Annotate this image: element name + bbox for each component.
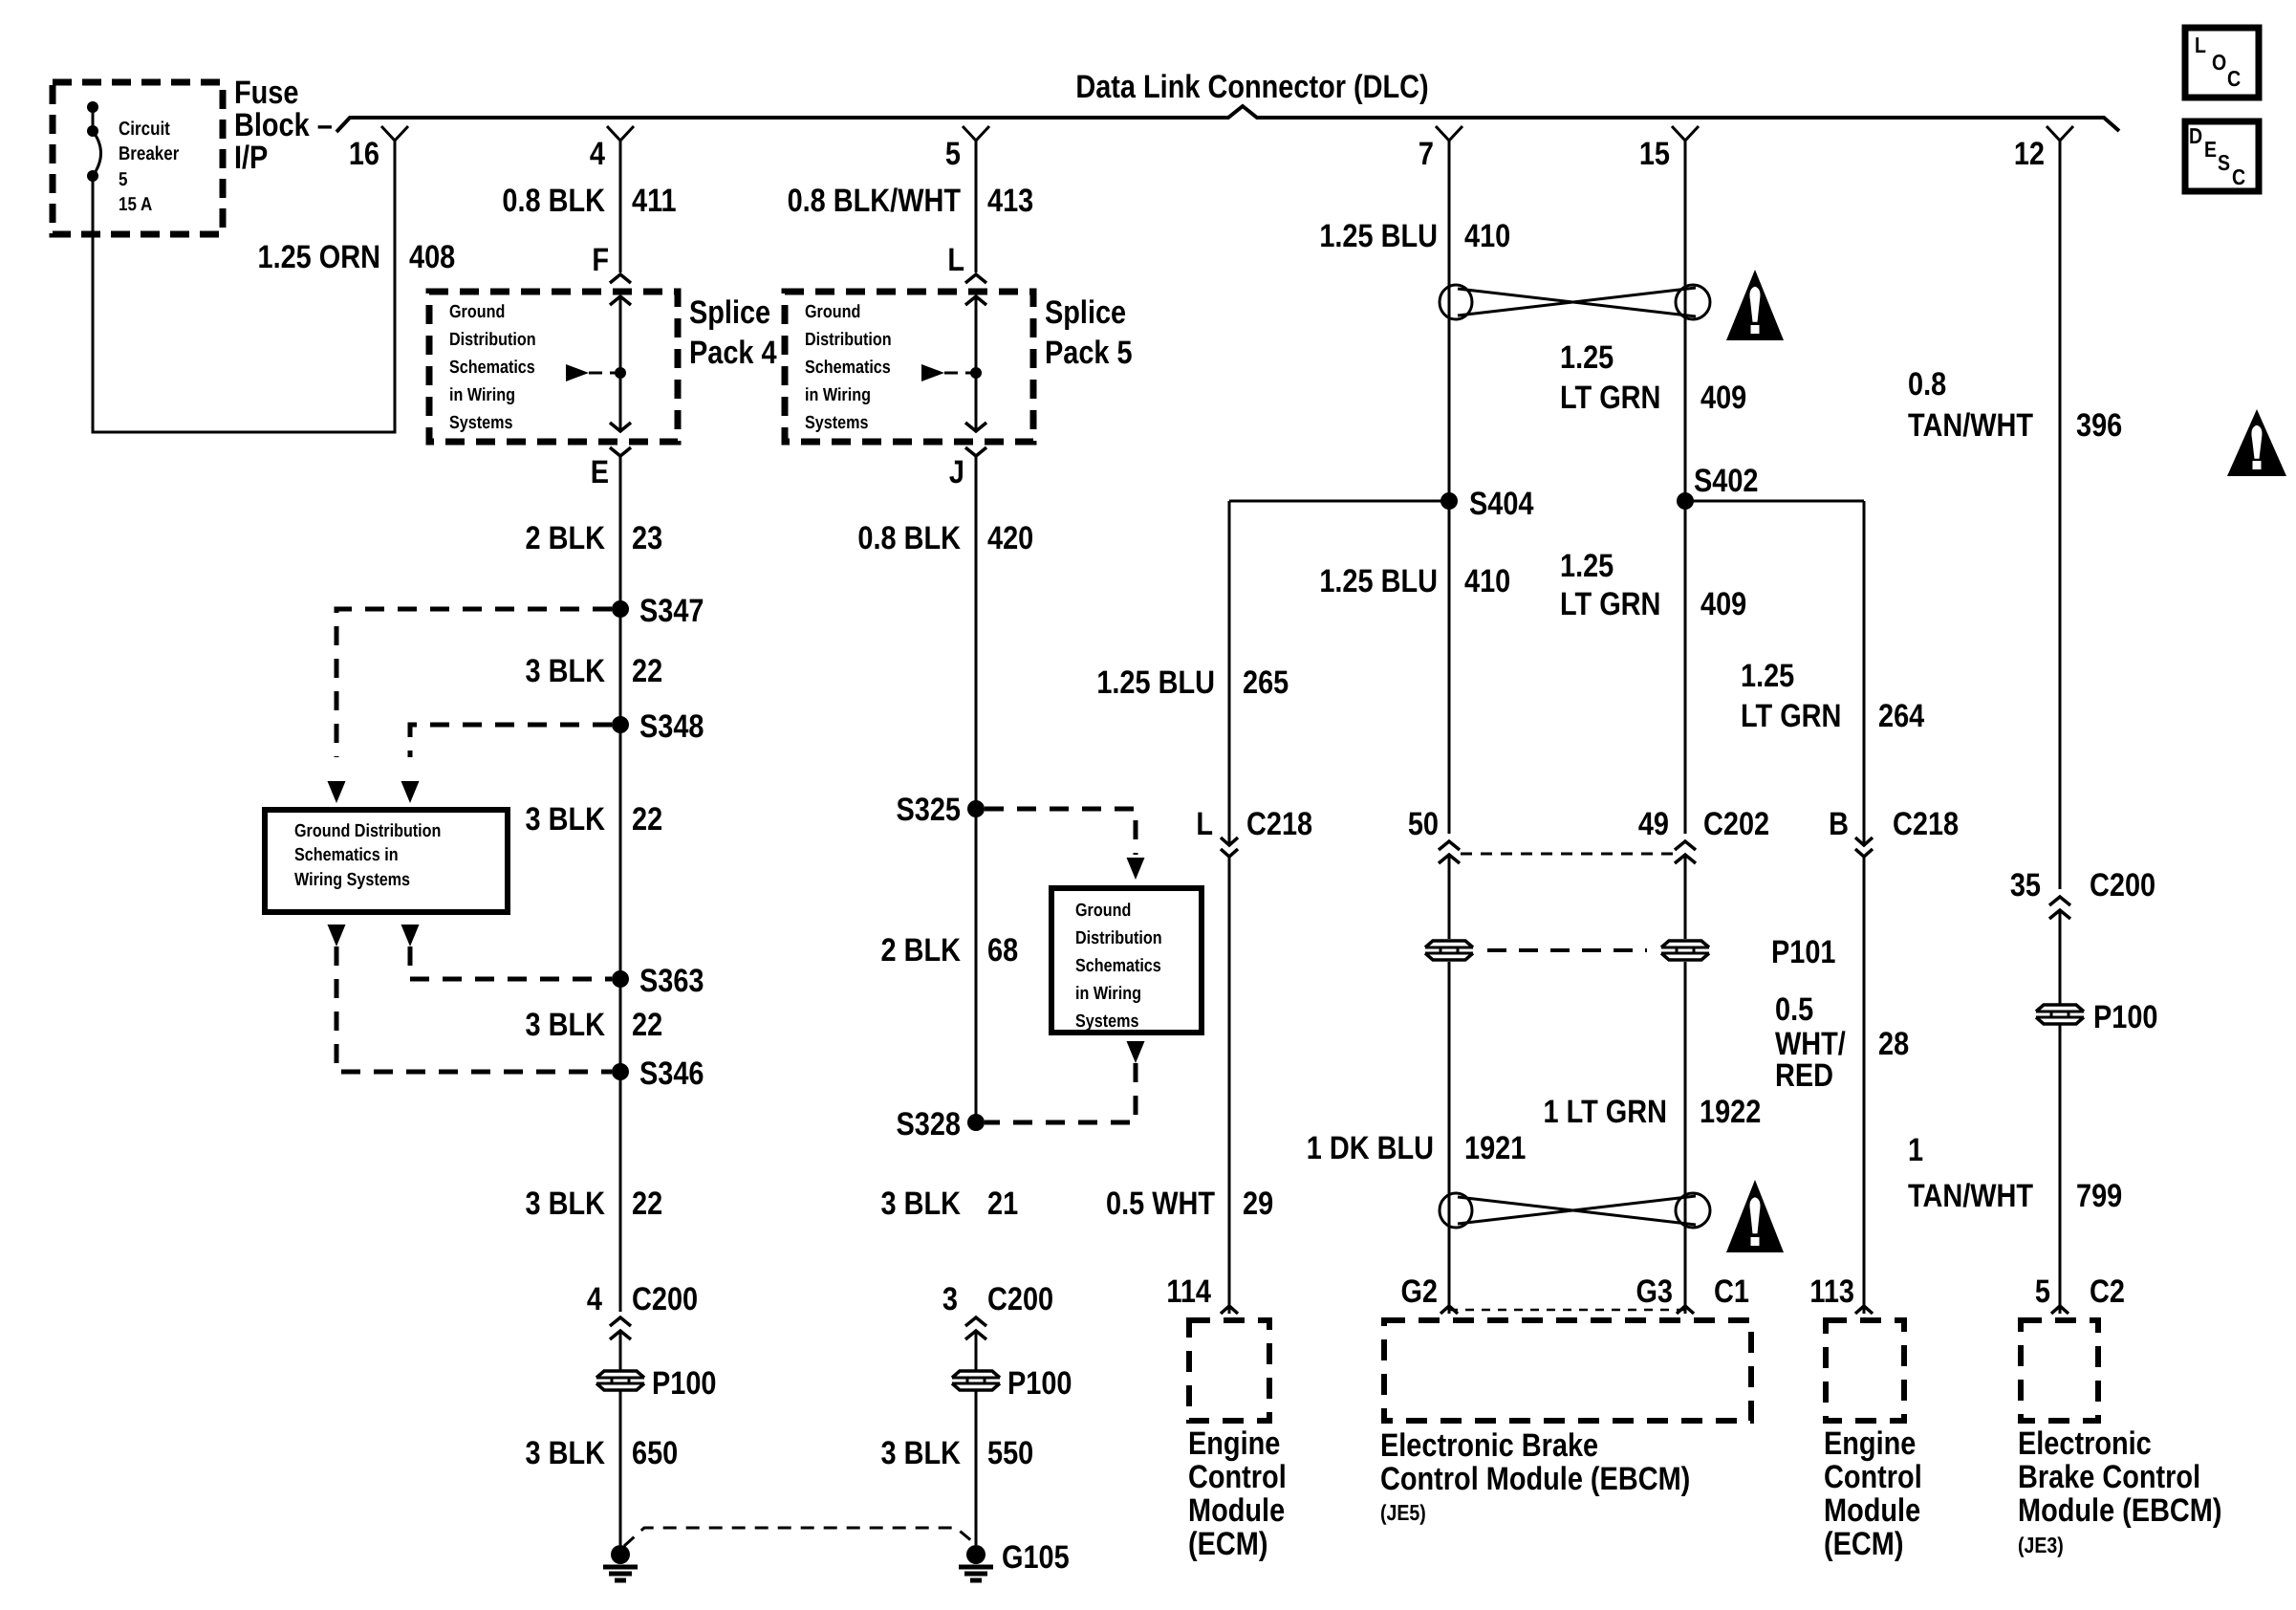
svg-text:Ground: Ground <box>1075 901 1131 921</box>
svg-text:411: 411 <box>632 183 677 219</box>
svg-text:1921: 1921 <box>1464 1130 1526 1166</box>
svg-text:Ground Distribution: Ground Distribution <box>294 821 441 841</box>
svg-text:4: 4 <box>590 136 605 172</box>
wire 550 <box>975 1391 978 1545</box>
svg-text:114: 114 <box>1166 1273 1211 1310</box>
wire to P100 (right) <box>2059 910 2062 1004</box>
svg-text:3 BLK: 3 BLK <box>881 1186 962 1222</box>
svg-text:5: 5 <box>119 169 127 190</box>
svg-text:TAN/WHT: TAN/WHT <box>1908 407 2033 444</box>
svg-text:LT GRN: LT GRN <box>1560 380 1660 416</box>
EBCM internal dashed link <box>1449 1309 1689 1312</box>
svg-text:C: C <box>2232 164 2245 189</box>
wire 420: J down to S325 <box>975 456 978 1122</box>
svg-text:15 A: 15 A <box>119 194 152 215</box>
svg-text:C200: C200 <box>987 1281 1053 1317</box>
svg-text:408: 408 <box>409 239 455 275</box>
dashed: S347 left leg <box>336 609 612 757</box>
wire to P100 <box>619 1333 622 1370</box>
ground (left) <box>611 1545 630 1564</box>
svg-text:Schematics: Schematics <box>1075 956 1161 976</box>
svg-text:0.8 BLK: 0.8 BLK <box>502 183 605 219</box>
DLC pin 5 <box>963 126 989 141</box>
svg-text:2 BLK: 2 BLK <box>526 520 606 556</box>
svg-text:G2: G2 <box>1400 1273 1438 1310</box>
dashed: box to S363 <box>401 925 420 946</box>
svg-text:2 BLK: 2 BLK <box>881 932 962 968</box>
splice S325 <box>967 800 985 817</box>
wire B C218 down <box>1863 501 1866 845</box>
svg-text:1 LT GRN: 1 LT GRN <box>1543 1094 1667 1130</box>
warning triangle (top) <box>1726 270 1784 340</box>
svg-text:68: 68 <box>987 932 1018 968</box>
svg-text:J: J <box>949 454 964 490</box>
svg-text:S346: S346 <box>639 1055 704 1092</box>
splice pack 4 pointer arrow <box>566 364 589 381</box>
svg-text:Module: Module <box>1188 1492 1285 1529</box>
svg-text:396: 396 <box>2076 407 2122 444</box>
svg-text:S404: S404 <box>1469 486 1534 522</box>
wire to P100 (middle) <box>975 1333 978 1370</box>
svg-text:Systems: Systems <box>449 413 512 433</box>
svg-text:21: 21 <box>987 1186 1018 1222</box>
splice S328 <box>967 1114 985 1131</box>
dashed: box to S346 <box>328 925 346 946</box>
splice pack 5 pointer arrow <box>921 364 944 381</box>
pass-through P100 (left) <box>596 1371 644 1378</box>
svg-text:3: 3 <box>942 1281 958 1317</box>
svg-text:L: L <box>947 242 964 278</box>
DLC pin 4 <box>607 126 634 141</box>
warning triangle (right) <box>2227 409 2286 476</box>
svg-text:3 BLK: 3 BLK <box>881 1435 962 1471</box>
svg-text:Breaker: Breaker <box>119 143 180 164</box>
svg-text:E: E <box>2204 137 2217 162</box>
wire inside splice pack 4 <box>619 296 622 431</box>
svg-text:I/P: I/P <box>234 140 268 176</box>
wire 410: pin 7 down <box>1448 140 1451 834</box>
svg-text:L: L <box>1196 806 1213 842</box>
svg-text:22: 22 <box>632 1007 662 1043</box>
svg-text:P100: P100 <box>2093 999 2157 1035</box>
wire L C218 down <box>1228 501 1231 845</box>
ground distribution solid box (middle) <box>1051 888 1202 1033</box>
svg-text:(JE5): (JE5) <box>1380 1500 1426 1525</box>
wire: S402 branch right <box>1685 500 1864 503</box>
svg-text:413: 413 <box>987 183 1033 219</box>
ECM dashed box (right) <box>1826 1320 1904 1421</box>
svg-text:Engine: Engine <box>1188 1425 1280 1462</box>
svg-text:(ECM): (ECM) <box>1188 1526 1267 1562</box>
DLC pin 7 <box>1436 126 1462 141</box>
svg-text:Systems: Systems <box>805 413 868 433</box>
wire 413: pin 5 down to L <box>975 140 978 272</box>
svg-text:Pack 5: Pack 5 <box>1045 335 1133 371</box>
wire: S404 branch left <box>1229 500 1449 503</box>
ground distribution solid box (left) <box>265 810 508 912</box>
svg-text:in Wiring: in Wiring <box>449 385 515 405</box>
svg-text:Wiring Systems: Wiring Systems <box>294 870 410 890</box>
svg-text:in Wiring: in Wiring <box>805 385 871 405</box>
svg-text:265: 265 <box>1243 664 1289 701</box>
svg-text:29: 29 <box>1243 1186 1273 1222</box>
dashed 50-49 link <box>1461 853 1679 856</box>
svg-text:Circuit: Circuit <box>119 119 170 140</box>
svg-text:Block –: Block – <box>234 107 333 143</box>
svg-text:0.5: 0.5 <box>1775 991 1813 1028</box>
wire 49 to P101 <box>1684 855 1687 939</box>
svg-text:S402: S402 <box>1694 463 1758 499</box>
EBCM dashed box (JE5) <box>1384 1320 1751 1421</box>
svg-text:L: L <box>2195 33 2206 57</box>
svg-text:LT GRN: LT GRN <box>1741 698 1841 734</box>
svg-text:28: 28 <box>1878 1026 1909 1062</box>
svg-text:(ECM): (ECM) <box>1824 1526 1903 1562</box>
wire to G2 <box>1448 962 1451 1314</box>
svg-text:22: 22 <box>632 1186 662 1222</box>
svg-text:410: 410 <box>1464 218 1510 254</box>
svg-text:49: 49 <box>1638 806 1669 842</box>
svg-text:1 DK BLU: 1 DK BLU <box>1307 1130 1434 1166</box>
svg-text:(JE3): (JE3) <box>2018 1533 2064 1557</box>
svg-text:550: 550 <box>987 1435 1033 1471</box>
dashed: box down to S328 <box>1127 1041 1145 1063</box>
svg-text:Fuse: Fuse <box>234 75 298 111</box>
wire 650 <box>619 1391 622 1545</box>
svg-text:Systems: Systems <box>1075 1012 1138 1032</box>
svg-text:0.5 WHT: 0.5 WHT <box>1106 1186 1215 1222</box>
warning triangle (bottom) <box>1726 1180 1784 1252</box>
svg-text:C218: C218 <box>1246 806 1312 842</box>
svg-text:Module (EBCM): Module (EBCM) <box>2018 1492 2222 1529</box>
svg-text:1.25 ORN: 1.25 ORN <box>257 239 380 275</box>
svg-text:Schematics: Schematics <box>805 358 891 378</box>
svg-text:S347: S347 <box>639 593 704 629</box>
svg-text:S363: S363 <box>639 963 704 999</box>
svg-text:Engine: Engine <box>1824 1425 1916 1462</box>
svg-text:22: 22 <box>632 801 662 838</box>
svg-text:B: B <box>1829 806 1849 842</box>
svg-text:1.25 BLU: 1.25 BLU <box>1096 664 1215 701</box>
wire inside splice pack 5 <box>975 296 978 431</box>
svg-text:410: 410 <box>1464 563 1510 599</box>
dashed: S348 left leg <box>410 725 612 757</box>
svg-text:Distribution: Distribution <box>1075 928 1162 948</box>
svg-text:C200: C200 <box>632 1281 698 1317</box>
wire 23: E down to S347 <box>619 456 622 1072</box>
svg-text:Electronic Brake: Electronic Brake <box>1380 1427 1598 1464</box>
splice S402 <box>1677 492 1694 510</box>
svg-text:Ground: Ground <box>805 302 860 322</box>
svg-text:5: 5 <box>2035 1273 2050 1310</box>
svg-text:16: 16 <box>349 136 379 172</box>
svg-text:LT GRN: LT GRN <box>1560 586 1660 622</box>
DLC pin 15 <box>1672 126 1699 141</box>
svg-text:3 BLK: 3 BLK <box>526 653 606 689</box>
svg-text:264: 264 <box>1878 698 1924 734</box>
svg-text:3 BLK: 3 BLK <box>526 1186 606 1222</box>
dashed link to G105 <box>624 1528 978 1546</box>
svg-text:Splice: Splice <box>1045 294 1126 331</box>
wire 411: pin 4 down to F <box>619 140 622 272</box>
svg-text:0.8 BLK: 0.8 BLK <box>857 520 961 556</box>
ECM dashed box (left) <box>1189 1320 1269 1421</box>
svg-text:Control: Control <box>1824 1459 1922 1495</box>
splice pack 4 dashed box <box>429 292 678 442</box>
svg-text:C: C <box>2227 66 2241 91</box>
dashed P101 link <box>1487 948 1647 952</box>
svg-text:409: 409 <box>1700 586 1746 622</box>
twisted pair (top) <box>1440 285 1472 319</box>
svg-text:12: 12 <box>2014 136 2045 172</box>
wire to G3 <box>1684 962 1687 1314</box>
ground G105 <box>966 1545 986 1564</box>
pass-through P100 (middle) <box>952 1371 1000 1378</box>
svg-text:1.25: 1.25 <box>1560 339 1614 376</box>
svg-text:D: D <box>2189 123 2202 148</box>
svg-text:G105: G105 <box>1002 1539 1070 1576</box>
svg-text:Splice: Splice <box>689 294 770 331</box>
svg-text:Control Module (EBCM): Control Module (EBCM) <box>1380 1461 1690 1497</box>
EBCM dashed box (JE3) <box>2021 1320 2098 1421</box>
svg-text:Control: Control <box>1188 1459 1287 1495</box>
svg-text:Ground: Ground <box>449 302 505 322</box>
svg-text:C218: C218 <box>1893 806 1959 842</box>
LOC box <box>2185 28 2259 98</box>
wire 799 <box>2059 1025 2062 1314</box>
splice pack 5 dashed box <box>785 292 1033 442</box>
svg-text:S348: S348 <box>639 708 704 745</box>
svg-text:P100: P100 <box>1007 1365 1072 1402</box>
wire 50 to P101 <box>1448 855 1451 939</box>
pass-through P101 (left) <box>1425 941 1473 947</box>
splice S404 <box>1440 492 1458 510</box>
svg-text:Schematics in: Schematics in <box>294 845 399 865</box>
svg-text:35: 35 <box>2010 867 2041 903</box>
svg-text:in Wiring: in Wiring <box>1075 984 1141 1004</box>
svg-text:S325: S325 <box>897 792 961 828</box>
wire: breaker to pin 16 (1.25 ORN 408) <box>93 140 395 432</box>
svg-text:C2: C2 <box>2090 1273 2125 1310</box>
splice S347 <box>612 600 629 618</box>
wire 409: pin 15 down <box>1684 140 1687 834</box>
svg-text:5: 5 <box>945 136 961 172</box>
svg-text:0.8: 0.8 <box>1908 366 1946 402</box>
svg-text:22: 22 <box>632 653 662 689</box>
splice S348 <box>612 716 629 733</box>
circuit breaker symbol <box>87 101 98 113</box>
splice S363 <box>612 970 629 988</box>
twisted pair (bottom) <box>1440 1193 1472 1228</box>
svg-text:Distribution: Distribution <box>805 330 892 350</box>
svg-text:Distribution: Distribution <box>449 330 536 350</box>
svg-text:P101: P101 <box>1771 934 1835 970</box>
svg-text:1.25: 1.25 <box>1741 658 1794 694</box>
svg-text:C200: C200 <box>2090 867 2155 903</box>
svg-text:Brake Control: Brake Control <box>2018 1459 2200 1495</box>
DLC pin 16 <box>381 126 408 141</box>
svg-text:7: 7 <box>1419 136 1434 172</box>
svg-text:F: F <box>592 242 609 278</box>
svg-text:O: O <box>2212 50 2226 75</box>
svg-text:1.25 BLU: 1.25 BLU <box>1319 563 1438 599</box>
svg-text:P100: P100 <box>652 1365 716 1402</box>
wire 29 down to ECM <box>1228 857 1231 1314</box>
pass-through P100 (right) <box>2036 1005 2084 1012</box>
svg-text:E: E <box>591 454 609 490</box>
svg-text:S: S <box>2218 150 2230 175</box>
DESC box <box>2185 121 2259 191</box>
svg-text:409: 409 <box>1700 380 1746 416</box>
connector J <box>965 447 986 456</box>
svg-text:TAN/WHT: TAN/WHT <box>1908 1178 2033 1214</box>
svg-text:420: 420 <box>987 520 1033 556</box>
dashed: S325 to ground dist box <box>985 809 1136 855</box>
wire 28 down to ECM <box>1863 857 1866 1314</box>
svg-text:15: 15 <box>1639 136 1670 172</box>
svg-text:1: 1 <box>1908 1132 1923 1168</box>
svg-text:Pack 4: Pack 4 <box>689 335 777 371</box>
svg-text:1.25 BLU: 1.25 BLU <box>1319 218 1438 254</box>
svg-text:3 BLK: 3 BLK <box>526 1007 606 1043</box>
wire 22 below S346 <box>619 1072 622 1312</box>
svg-text:RED: RED <box>1775 1057 1833 1094</box>
svg-text:650: 650 <box>632 1435 678 1471</box>
connector E <box>610 447 631 456</box>
svg-text:Schematics: Schematics <box>449 358 535 378</box>
wire 396: pin 12 down <box>2059 140 2062 889</box>
svg-text:Electronic: Electronic <box>2018 1425 2152 1462</box>
svg-text:3 BLK: 3 BLK <box>526 801 606 838</box>
svg-text:4: 4 <box>587 1281 602 1317</box>
svg-text:50: 50 <box>1408 806 1439 842</box>
svg-text:3 BLK: 3 BLK <box>526 1435 606 1471</box>
DLC bus wire <box>336 106 2119 132</box>
svg-text:0.8 BLK/WHT: 0.8 BLK/WHT <box>788 183 962 219</box>
svg-text:23: 23 <box>632 520 662 556</box>
svg-text:G3: G3 <box>1635 1273 1673 1310</box>
svg-text:113: 113 <box>1809 1273 1854 1310</box>
svg-text:S328: S328 <box>897 1106 961 1142</box>
DLC pin 12 <box>2047 126 2073 141</box>
svg-text:C202: C202 <box>1703 806 1769 842</box>
svg-text:799: 799 <box>2076 1178 2122 1214</box>
splice S346 <box>612 1063 629 1080</box>
circuit breaker dashed box <box>53 82 223 234</box>
svg-text:1.25: 1.25 <box>1560 548 1614 584</box>
svg-text:Data Link Connector (DLC): Data Link Connector (DLC) <box>1075 69 1428 105</box>
svg-text:C1: C1 <box>1714 1273 1749 1310</box>
pass-through P101 (right) <box>1661 941 1709 947</box>
svg-text:Module: Module <box>1824 1492 1920 1529</box>
svg-text:1922: 1922 <box>1700 1094 1761 1130</box>
